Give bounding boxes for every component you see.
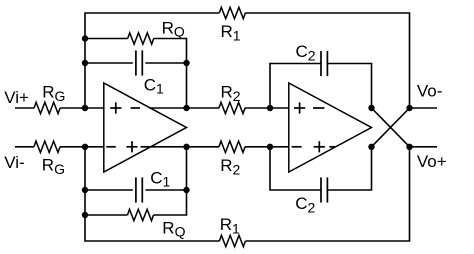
svg-text:RG: RG [42, 83, 65, 104]
wire: Vo+ terminal stub [410, 146, 438, 148]
node: C1 top right junction [183, 60, 189, 66]
wire: Vi+ input lead [15, 107, 34, 109]
wire: RQ top branch [85, 39, 187, 109]
node: C1 bottom left junction [82, 187, 88, 193]
op-amp U1 (fully differential) triangle [104, 83, 187, 172]
op-amp U2 (fully differential) triangle [289, 83, 372, 172]
resistor R1 (top) [219, 7, 245, 18]
node: U1 output top junction [183, 105, 189, 111]
node: RQ bottom left junction [82, 212, 88, 218]
resistor R2 (bottom) [219, 141, 245, 152]
op-amp U2 top input marking: + and dash [294, 107, 305, 109]
wire: U2 output crossover to Vo+ (diagonal down) [372, 108, 410, 147]
node: Vo- terminal junction [406, 105, 412, 111]
wire: RQ bottom branch [85, 147, 187, 215]
op-amp U1 bottom input marking: dash, +, dash [106, 146, 116, 148]
capacitor C2 (top) plates [320, 51, 322, 76]
wire: RG top to op-amp U1 input [60, 107, 104, 109]
wire: Vi- input lead [15, 146, 34, 148]
svg-text:R2: R2 [220, 156, 240, 177]
node: Vi+ summing junction [82, 105, 88, 111]
node: C2 bottom left junction [267, 144, 273, 150]
node: Vo+ terminal junction [406, 144, 412, 150]
svg-text:Vo-: Vo- [417, 81, 443, 100]
svg-text:RG: RG [42, 156, 65, 177]
resistor RG (bottom) [34, 141, 60, 152]
svg-text:R1: R1 [220, 215, 240, 236]
node: U1 output bottom junction [183, 144, 189, 150]
op-amp U2 bottom input marking: dash, +, dash [292, 146, 302, 148]
node: U2 output top junction [368, 105, 374, 111]
svg-text:C1: C1 [150, 168, 170, 189]
wire: U1 bottom output row to op-amp U2 (through R2 bottom) [150, 146, 289, 148]
wire: U2 output crossover to Vo- (diagonal up) [372, 108, 410, 147]
resistor RG (top) [34, 102, 60, 113]
resistor RQ (bottom) [128, 209, 154, 220]
capacitor C1 (top) plates [135, 50, 137, 75]
node: Vi- summing junction [82, 144, 88, 150]
wire: U1 top output row to op-amp U2 (through R2 top) [150, 107, 289, 109]
capacitor C2 (top) branch wires [270, 64, 372, 109]
svg-text:RQ: RQ [162, 218, 185, 239]
svg-text:Vi+: Vi+ [4, 88, 29, 107]
svg-text:C1: C1 [144, 75, 164, 96]
capacitor C1 (top) branch wires [85, 62, 187, 64]
node: C1 top left junction [82, 60, 88, 66]
node: RQ top left junction [82, 35, 88, 41]
svg-text:R1: R1 [221, 22, 241, 43]
svg-text:R2: R2 [221, 83, 241, 104]
svg-text:Vo+: Vo+ [417, 152, 447, 171]
node: C1 bottom right junction [183, 187, 189, 193]
resistor R2 (top) [219, 102, 245, 113]
wire: RG bottom to op-amp U1 input [60, 146, 104, 148]
svg-text:C2: C2 [295, 194, 315, 215]
wire: bottom feedback rail (Vi- node to Vo+ node via R1) [85, 147, 410, 241]
resistor R1 (bottom) [219, 235, 245, 246]
node: C2 top left junction [267, 105, 273, 111]
resistor RQ (top) [128, 33, 154, 44]
capacitor C1 (bottom) branch wires [85, 189, 187, 191]
svg-text:C2: C2 [296, 42, 316, 63]
svg-text:RQ: RQ [162, 18, 185, 39]
wire: top feedback rail (Vi+ node to Vo- node via R1) [85, 13, 410, 108]
op-amp U1 top input marking: + and dash [110, 107, 121, 109]
capacitor C2 (bottom) branch wires [270, 147, 372, 190]
svg-text:Vi-: Vi- [4, 153, 24, 172]
wire: Vo- terminal stub [410, 107, 438, 109]
capacitor C2 (bottom) plates [320, 177, 322, 202]
node: U2 output bottom junction [368, 144, 374, 150]
capacitor C1 (bottom) plates [135, 177, 137, 202]
